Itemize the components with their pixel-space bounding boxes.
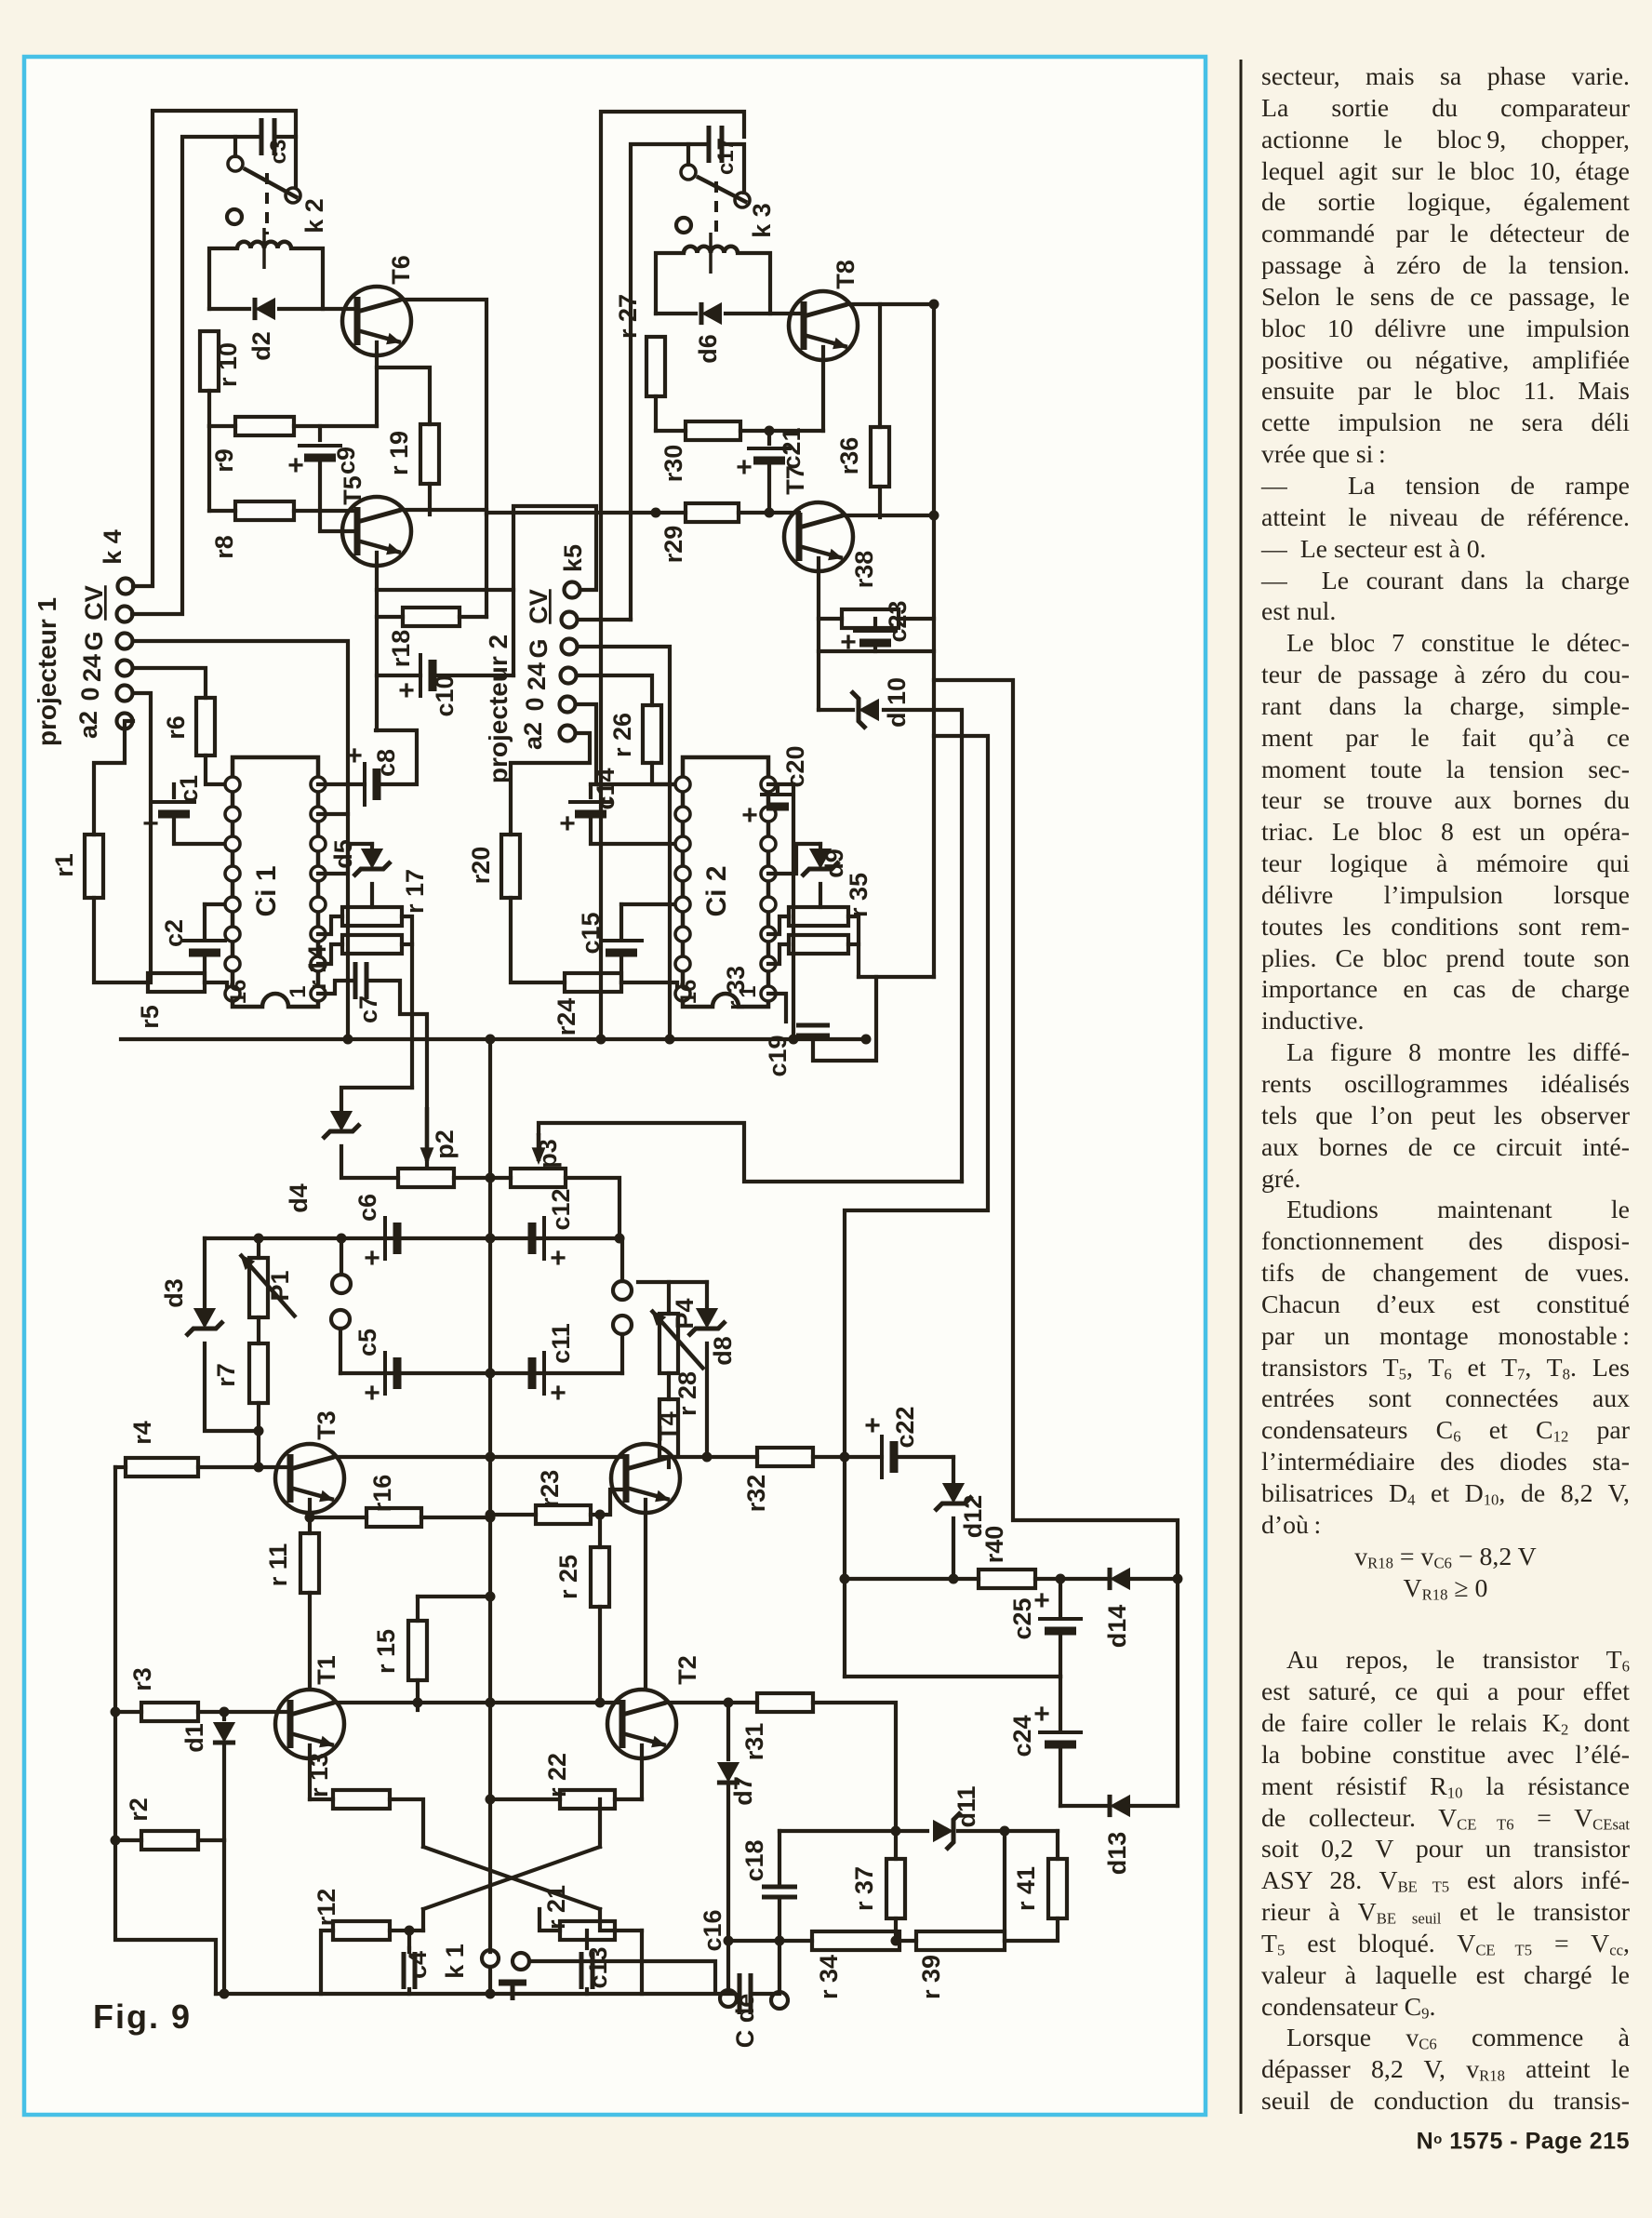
junction c6/bus node	[486, 1234, 496, 1244]
resistor r16	[366, 1508, 421, 1527]
wire r28 bottom	[667, 1457, 671, 1467]
wire d13 line	[1060, 1804, 1108, 1808]
svg-text:c21: c21	[778, 427, 806, 469]
terminal k4 contact CV2	[117, 607, 133, 622]
resistor r5	[148, 973, 205, 992]
transistor T7	[784, 502, 853, 571]
wire r13 right	[390, 1799, 423, 1847]
wire c20 right	[792, 784, 795, 1039]
IC Ci1 pin 7 right	[311, 956, 326, 971]
label d2	[247, 331, 275, 361]
label T3	[313, 1410, 340, 1440]
label r19	[385, 431, 413, 475]
label r31	[740, 1723, 768, 1761]
label r40	[980, 1526, 1008, 1564]
junction rail/x646	[596, 1035, 606, 1045]
junction d7 node	[724, 1698, 734, 1708]
wire Ci1 pin4R to d5	[318, 844, 372, 874]
wire c9 top stub	[318, 426, 322, 440]
terminal jack J1a	[332, 1275, 351, 1293]
wire cross link A	[423, 1847, 600, 1909]
wire T8 emitter	[821, 347, 825, 431]
wire y1802 line	[845, 1675, 1060, 1678]
svg-text:r 39: r 39	[917, 1955, 945, 1999]
capacitor c12	[532, 1216, 566, 1274]
capacitor c6	[364, 1216, 397, 1274]
wire Ci2 pin7R to r35b	[768, 944, 789, 964]
resistor r12	[333, 1921, 390, 1940]
junction r15/bus	[486, 1592, 496, 1602]
junction d14/x1266	[1173, 1574, 1183, 1584]
terminal jack J2b	[613, 1316, 632, 1334]
label T4	[654, 1411, 682, 1441]
figure caption	[93, 1998, 192, 2036]
diode d1	[213, 1722, 235, 1743]
junction c6/p1 node	[254, 1234, 264, 1244]
IC Ci1 pin 2 left	[225, 807, 240, 822]
wire k3 coil left	[656, 253, 684, 314]
label r23	[536, 1470, 564, 1508]
svg-text:Ci 2: Ci 2	[701, 865, 732, 916]
junction c6/d4 node	[337, 1234, 347, 1244]
wire r8 line left	[209, 509, 235, 513]
wire c15 top stub	[619, 904, 623, 938]
resistor r3	[141, 1703, 198, 1721]
svg-text:k5: k5	[559, 544, 587, 572]
label r34	[815, 1955, 843, 1999]
wire T5-T7 rail	[486, 511, 686, 514]
label d14	[1103, 1605, 1131, 1649]
wire c23 top stub	[873, 619, 877, 628]
diode d14	[1110, 1568, 1130, 1590]
junction r32/x908	[840, 1452, 850, 1463]
wire r27 bottom	[654, 396, 658, 431]
svg-text:r4: r4	[128, 1421, 156, 1445]
potentiometer wiper p2 wiper	[420, 1107, 434, 1165]
label CV proj1	[80, 585, 108, 621]
svg-text:r18: r18	[387, 630, 415, 668]
label r21	[542, 1885, 570, 1930]
svg-text:c7: c7	[354, 995, 382, 1023]
junction c4 node	[405, 1926, 415, 1936]
wire c17 to switch	[722, 144, 744, 193]
wire d7 col top	[726, 1703, 730, 1759]
label Ci2 pin16	[676, 980, 701, 1005]
svg-text:0: 0	[76, 687, 104, 701]
wire r21 right	[600, 1909, 615, 1931]
terminal terminal G proj2	[562, 639, 578, 655]
junction r4col/r3	[111, 1707, 121, 1717]
wire H2 rail right	[751, 1992, 779, 1996]
wire k1 stem	[488, 1967, 492, 1994]
push button k1	[499, 1983, 526, 2000]
wire d10 line left	[819, 708, 853, 712]
svg-text:k 1: k 1	[441, 1944, 469, 1979]
svg-text:d2: d2	[247, 331, 275, 361]
relay contact k3	[681, 165, 750, 207]
IC Ci2 pin 5 left	[675, 897, 690, 912]
wire d14 right	[1132, 1577, 1178, 1581]
junction rail/G1	[343, 1035, 353, 1045]
wire T6-T5 rail extension	[485, 514, 488, 617]
capacitor c3	[261, 118, 274, 155]
svg-text:P1: P1	[266, 1270, 294, 1301]
wire r38 left	[819, 617, 842, 621]
wire r15 top stub	[416, 1597, 420, 1621]
wire p4-r28	[667, 1373, 671, 1399]
svg-text:0: 0	[521, 697, 549, 711]
label r16	[368, 1475, 396, 1513]
label c13	[584, 1946, 612, 1988]
IC Ci2 pin 6 right	[761, 927, 776, 942]
svg-text:c5: c5	[353, 1329, 381, 1356]
wire Ci2 pin4R to d9	[768, 844, 820, 874]
wire d12 bottom	[952, 1518, 955, 1579]
zener diode d11	[933, 1812, 961, 1850]
wire r10 bottom to r9 line	[207, 391, 211, 426]
wire H1 right corner	[1003, 1831, 1006, 1941]
label r18	[387, 630, 415, 668]
resistor r1	[85, 835, 103, 898]
label P1	[266, 1270, 294, 1301]
wire lower jack left stub	[339, 1329, 342, 1373]
resistor r35a	[789, 907, 848, 926]
resistor r27	[646, 337, 665, 396]
label r12	[313, 1889, 340, 1927]
wire c18 col top	[778, 1831, 781, 1884]
wire c4 bottom	[407, 1989, 411, 1994]
svg-text:+: +	[364, 1378, 380, 1409]
wire d2 to T6 base	[279, 307, 357, 311]
resistor r2	[141, 1831, 198, 1850]
diode d13	[1110, 1795, 1130, 1817]
svg-text:c8: c8	[372, 749, 400, 777]
label r4	[128, 1421, 156, 1445]
resistor r36	[871, 427, 889, 487]
svg-text:r 26: r 26	[608, 713, 636, 757]
diode d7	[717, 1762, 739, 1783]
wire d1col to H2	[222, 1840, 226, 1994]
wire c22 to d12 col	[952, 1457, 955, 1485]
label c21	[778, 427, 806, 469]
wire r40 right	[1035, 1577, 1108, 1581]
wire r18 right	[460, 615, 486, 619]
label d11	[953, 1785, 980, 1827]
wire left col top	[115, 1465, 126, 1469]
svg-text:r 13: r 13	[305, 1753, 333, 1797]
resistor r20	[501, 835, 520, 898]
capacitor c24	[1033, 1699, 1083, 1744]
svg-text:r38: r38	[850, 551, 878, 589]
resistor r25	[591, 1547, 609, 1607]
capacitor c11	[532, 1351, 566, 1409]
capacitor c21	[736, 448, 792, 483]
label d6	[694, 334, 722, 364]
wire p3 right	[566, 1178, 619, 1238]
label c19	[764, 1035, 792, 1076]
svg-text:c19: c19	[764, 1035, 792, 1076]
label c17	[713, 138, 739, 175]
terminal jack J2a	[613, 1281, 632, 1300]
junction T1coll/r15	[413, 1698, 423, 1708]
wire T1 emitter	[308, 1745, 312, 1799]
svg-text:c2: c2	[160, 919, 188, 947]
label c16	[699, 1909, 726, 1951]
IC Ci2 pin 5 right	[761, 897, 776, 912]
wire k2 coil left to d2 line	[209, 248, 237, 309]
wire r21 to H2	[640, 1931, 644, 1994]
wire jack right lower stub	[620, 1334, 624, 1373]
resistor r34	[812, 1931, 899, 1950]
svg-text:c12: c12	[547, 1188, 575, 1230]
svg-text:T7: T7	[781, 465, 809, 495]
svg-text:c9: c9	[332, 447, 360, 474]
IC Ci1 pin 6 right	[311, 927, 326, 942]
terminal terminal 24 proj2	[561, 668, 577, 684]
diode d2	[255, 298, 275, 320]
wire r21 left	[540, 1909, 560, 1931]
svg-text:r20: r20	[467, 847, 495, 885]
label k1	[441, 1944, 469, 1979]
terminal k1 contact A	[482, 1950, 499, 1967]
wire d13 right	[1132, 1804, 1178, 1808]
svg-text:+: +	[741, 800, 758, 831]
capacitor c19	[796, 1025, 830, 1036]
label d7	[729, 1776, 757, 1806]
wire k3 outer rail	[601, 112, 744, 1039]
svg-text:d1: d1	[180, 1723, 208, 1753]
svg-text:k 3: k 3	[748, 203, 776, 238]
junction r4/r7 node	[254, 1463, 264, 1473]
svg-text:c4: c4	[404, 1951, 432, 1979]
label r15	[372, 1629, 400, 1674]
resistor r23	[536, 1505, 591, 1524]
resistor r14	[342, 935, 402, 954]
IC Ci2 pin 2 left	[675, 807, 690, 822]
resistor r4	[126, 1458, 198, 1476]
wire r16 right	[421, 1516, 490, 1519]
wire Ci2 pin8R to c19	[768, 994, 786, 1022]
IC Ci1 pin 1 left	[225, 777, 240, 792]
label Ci2 name	[701, 865, 732, 916]
wire c19 right	[813, 977, 934, 1061]
IC Ci1 pin 8 right	[311, 986, 326, 1001]
svg-text:d 10: d 10	[883, 677, 911, 728]
transistor T6	[342, 287, 411, 355]
svg-text:r2: r2	[125, 1797, 153, 1822]
wire r15 bottom	[416, 1680, 420, 1710]
IC Ci1 pin 3 left	[225, 836, 240, 851]
junction r22/bus	[486, 1795, 496, 1805]
label r30	[659, 445, 687, 483]
capacitor c23	[840, 627, 898, 658]
svg-text:+: +	[550, 1378, 566, 1409]
junction r16/bus	[486, 1513, 496, 1523]
svg-text:+: +	[364, 1243, 380, 1274]
junction d8/rail	[702, 1452, 713, 1463]
svg-text:r 17: r 17	[401, 869, 429, 914]
label r37	[850, 1866, 878, 1911]
svg-text:d13: d13	[1103, 1832, 1131, 1876]
wire p3 wiper link	[539, 1123, 962, 1182]
wire c15 bottom	[619, 953, 623, 982]
wire k3 switch feed	[686, 144, 690, 165]
label r38	[850, 551, 878, 589]
wire x908 to r40 line	[845, 1577, 953, 1581]
wire r23 left	[490, 1513, 536, 1517]
label T5	[339, 475, 366, 505]
svg-text:r9: r9	[210, 448, 238, 473]
IC Ci2 pin 8 right	[761, 986, 776, 1001]
wire r8 left stub	[207, 426, 211, 511]
svg-text:r5: r5	[136, 1005, 164, 1029]
svg-text:r12: r12	[313, 1889, 340, 1927]
junction r37 top	[891, 1826, 901, 1837]
resistor r10	[200, 331, 219, 391]
wire d2 anode line	[209, 307, 249, 311]
zener diode d5	[353, 848, 391, 876]
svg-text:r 33: r 33	[722, 966, 750, 1010]
label d4	[285, 1183, 313, 1213]
wire left column	[115, 1467, 216, 1994]
IC Ci1 pin 5 right	[311, 897, 326, 912]
label k5	[559, 544, 587, 572]
svg-text:r6: r6	[162, 715, 190, 740]
svg-text:c13: c13	[584, 1946, 612, 1988]
resistor r41	[1048, 1859, 1067, 1918]
svg-text:a2: a2	[519, 722, 547, 750]
svg-text:c20: c20	[781, 745, 809, 787]
wire c18 col bottom	[778, 1897, 781, 1991]
wire r35loop to line	[859, 975, 876, 979]
wire r15 top link	[418, 1595, 490, 1598]
svg-text:r3: r3	[128, 1667, 156, 1691]
label d1	[180, 1723, 208, 1753]
wire r35 right loop	[848, 916, 859, 977]
svg-text:projecteur 1: projecteur 1	[33, 597, 61, 746]
svg-text:d4: d4	[285, 1183, 313, 1213]
wire 0-1 wire	[133, 693, 151, 982]
label Ci2 pin1	[736, 985, 761, 997]
IC Ci1 pin 4 right	[311, 866, 326, 881]
label d5	[329, 839, 357, 869]
wire T4 emitter	[644, 1500, 647, 1689]
junction d11/x1080	[1000, 1826, 1010, 1837]
wire T1 base line	[115, 1710, 141, 1714]
label 0 proj1	[76, 687, 104, 701]
label 24 proj1	[78, 654, 106, 682]
svg-text:d7: d7	[729, 1776, 757, 1806]
svg-text:r 35: r 35	[845, 873, 873, 917]
svg-text:24: 24	[523, 662, 551, 690]
resistor r13	[333, 1790, 390, 1809]
svg-text:k 4: k 4	[99, 529, 127, 565]
label d10	[883, 677, 911, 728]
wire c7 right	[366, 981, 427, 1166]
svg-text:r40: r40	[980, 1526, 1008, 1564]
label P4	[671, 1298, 699, 1329]
label Ci1 pin1	[286, 985, 311, 997]
transistor T4	[611, 1444, 680, 1513]
wire d6 to T8 base	[726, 312, 803, 315]
IC Ci2 pin 1 left	[675, 777, 690, 792]
wire r19 feed	[377, 367, 430, 424]
wire d3 col	[203, 1238, 206, 1310]
zener diode d4	[323, 1111, 360, 1139]
wire r30 left	[656, 429, 686, 433]
relay linkage k2	[265, 173, 269, 234]
svg-text:c10: c10	[431, 675, 459, 716]
diode d6	[701, 302, 722, 325]
label c24	[1008, 1715, 1036, 1757]
svg-text:r 34: r 34	[815, 1955, 843, 1999]
wire r12 left	[421, 1909, 425, 1931]
svg-text:a2: a2	[74, 711, 102, 739]
wire d8 stub	[705, 1282, 709, 1310]
terminal k5 contact CV2	[562, 612, 578, 628]
IC Ci1 pin 6 left	[225, 927, 240, 942]
wire r2 right	[198, 1838, 224, 1842]
resistor r17	[342, 907, 402, 926]
svg-text:r1: r1	[50, 853, 78, 877]
wire r13 left	[310, 1797, 333, 1801]
label r7	[212, 1363, 240, 1387]
IC Ci1 pin 8 left	[225, 986, 240, 1001]
wire c1 top stub	[172, 784, 176, 797]
wire supply rail under Ci1	[121, 1037, 866, 1041]
wire r14 right	[402, 942, 412, 946]
IC Ci1 pin 2 right	[311, 807, 326, 822]
label a2 proj2	[519, 722, 547, 750]
svg-text:r31: r31	[740, 1723, 768, 1761]
wire r1 bottom	[94, 898, 148, 982]
adjust arrow p1 arrow	[240, 1254, 296, 1317]
wire d1 bottom	[222, 1745, 226, 1840]
wire c3 to switch k2	[274, 137, 296, 187]
label Ci1 name	[251, 865, 282, 916]
wire c4 top link	[407, 1948, 411, 1952]
svg-text:r29: r29	[659, 526, 687, 564]
transistor T1	[275, 1690, 344, 1758]
label T8	[832, 260, 859, 289]
wire G1 wire	[133, 641, 348, 1039]
label c12	[547, 1188, 575, 1230]
wire r25 top	[598, 1515, 602, 1547]
wire Ci1 pin1R to c8	[318, 782, 365, 786]
terminal terminal G proj1	[117, 634, 133, 649]
resistor r24	[565, 973, 621, 992]
junction r34/r37	[891, 1936, 901, 1946]
wire T1 collector to T2 base	[334, 1701, 622, 1704]
relay coil k2	[237, 228, 291, 269]
junction c5/bus node	[486, 1369, 496, 1379]
svg-text:+: +	[398, 675, 415, 706]
IC Ci2 pin 4 left	[675, 866, 690, 881]
svg-text:r36: r36	[835, 437, 863, 475]
svg-text:+: +	[287, 450, 304, 481]
wire r24 right	[621, 982, 683, 994]
wire d4 to p2 line	[341, 1146, 398, 1178]
terminal k3 rest contact O	[676, 218, 691, 233]
wire r7 bottom	[257, 1403, 260, 1467]
svg-text:T1: T1	[313, 1655, 340, 1685]
IC Ci2 pin 2 right	[761, 807, 776, 822]
resistor p3	[511, 1169, 566, 1187]
label r25	[554, 1555, 582, 1599]
wire r18 left	[377, 615, 403, 619]
svg-text:c15: c15	[577, 912, 605, 954]
resistor r31	[757, 1693, 813, 1712]
